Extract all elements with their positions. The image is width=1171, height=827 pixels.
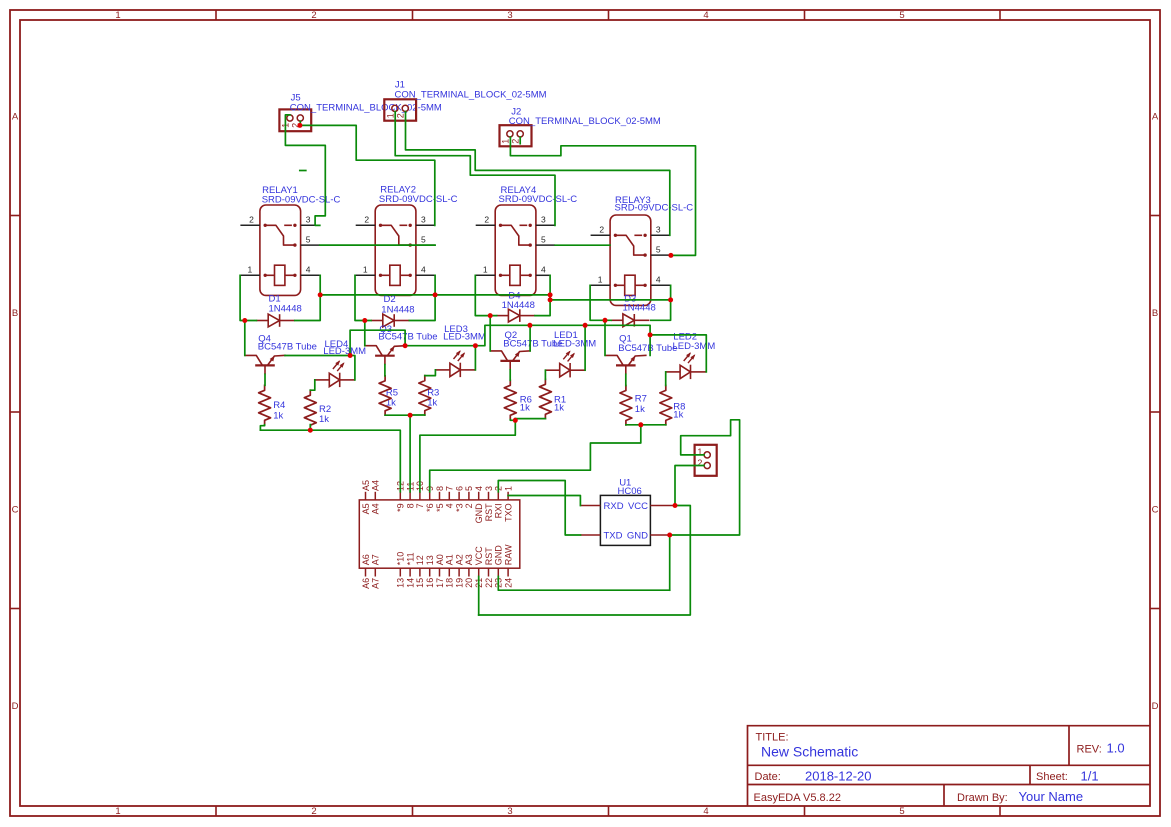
- arduino header bottom pin 16 (13): [429, 568, 431, 576]
- svg-text:2018-12-20: 2018-12-20: [805, 769, 872, 784]
- svg-text:A4: A4: [371, 503, 381, 514]
- relay RELAY2 coil: [390, 265, 400, 285]
- junction R6/R1 node: [513, 418, 518, 423]
- svg-text:2: 2: [464, 503, 474, 508]
- svg-text:B: B: [12, 308, 18, 319]
- wire RELAY3 pin4 down / D3 cathode: [651, 285, 671, 320]
- relay RELAY4 pin 2: [476, 224, 496, 226]
- connector J2 pin 1: [507, 131, 513, 137]
- junction R2 bottom: [308, 428, 313, 433]
- wire R5+R3 bottoms to arduino pin 11: [385, 414, 410, 416]
- svg-text:6: 6: [454, 486, 464, 491]
- wire D1 anode to Q4 collector: [244, 321, 246, 356]
- svg-text:CON_TERMINAL_BLOCK_02-5MM: CON_TERMINAL_BLOCK_02-5MM: [509, 116, 661, 127]
- connector J1 pin 1: [392, 105, 398, 111]
- resistor R6: [504, 380, 516, 419]
- svg-text:A5: A5: [361, 480, 371, 491]
- connector J5: [279, 109, 311, 131]
- svg-text:5: 5: [656, 245, 661, 255]
- relay RELAY1 body: [260, 205, 301, 295]
- svg-text:1: 1: [483, 265, 488, 275]
- wire VCC rail: [479, 506, 691, 616]
- svg-text:1.0: 1.0: [1107, 741, 1125, 756]
- wire R6+R1 bottoms to arduino pin 10: [510, 419, 515, 422]
- svg-text:1/1: 1/1: [1081, 769, 1099, 784]
- arduino header bottom pin 13 (*10): [399, 568, 401, 576]
- relay RELAY2 pin 4: [416, 274, 435, 276]
- svg-text:4: 4: [306, 265, 311, 275]
- junction D2 anode: [362, 318, 367, 323]
- resistor R5: [379, 376, 391, 415]
- svg-text:TXD: TXD: [604, 531, 623, 542]
- relay RELAY1 pin 2: [240, 224, 260, 226]
- resistor R2: [304, 390, 316, 429]
- svg-text:5: 5: [899, 806, 904, 817]
- svg-text:SRD-09VDC-SL-C: SRD-09VDC-SL-C: [262, 194, 341, 205]
- transistor Q3: [375, 355, 395, 357]
- svg-text:Your Name: Your Name: [1019, 789, 1084, 804]
- svg-text:2: 2: [364, 215, 369, 225]
- relay RELAY2 pin 5: [416, 244, 435, 246]
- svg-text:LED-3MM: LED-3MM: [443, 331, 486, 342]
- svg-text:2: 2: [311, 10, 316, 21]
- wire GND dot down: [669, 535, 671, 590]
- arduino header top pin 12 (*9): [399, 492, 401, 500]
- relay RELAY3 coil: [625, 275, 635, 295]
- junction RELAY4 pin4 b: [548, 297, 553, 302]
- svg-text:*9: *9: [396, 503, 406, 512]
- arduino header bottom pin 24 (RAW): [507, 568, 509, 576]
- wire arduino pin 21 to VCC rail: [478, 577, 480, 616]
- svg-text:3: 3: [541, 215, 546, 225]
- arduino header top pin 9 (*6): [429, 492, 431, 500]
- relay RELAY4 switch contacts: [501, 225, 531, 245]
- svg-text:4: 4: [703, 806, 708, 817]
- relay RELAY3 pin 3: [651, 234, 670, 236]
- connector U2 arduino header body: [359, 500, 520, 568]
- junction LED3 node: [473, 343, 478, 348]
- svg-text:12: 12: [415, 555, 425, 565]
- svg-text:A1: A1: [445, 554, 455, 565]
- svg-text:B: B: [1152, 308, 1158, 319]
- relay RELAY3 pin 2: [591, 234, 611, 236]
- wire Q3 base to R5: [384, 365, 386, 376]
- relay RELAY2 body: [375, 205, 416, 295]
- svg-text:RXI: RXI: [494, 503, 504, 518]
- svg-text:3: 3: [421, 215, 426, 225]
- arduino header top pin 5 (2): [468, 492, 470, 500]
- wire Q3 emitter node to LED3 node: [405, 345, 476, 347]
- transistor Q1: [616, 364, 636, 366]
- junction RELAY3 pin5: [668, 253, 673, 258]
- svg-text:5: 5: [306, 235, 311, 245]
- arduino header top pin A4 (A4): [374, 492, 376, 500]
- svg-text:A0: A0: [435, 554, 445, 565]
- svg-text:2: 2: [599, 225, 604, 235]
- arduino header bottom pin 23 (GND): [497, 568, 499, 576]
- wire stub (unconnected): [300, 170, 306, 172]
- LED LED3: [435, 369, 450, 371]
- svg-text:REV:: REV:: [1077, 744, 1102, 756]
- wire LED3 node to LED3 cathode: [474, 346, 476, 370]
- svg-text:A2: A2: [454, 554, 464, 565]
- svg-text:A7: A7: [371, 554, 381, 565]
- svg-text:1k: 1k: [273, 410, 283, 421]
- wire R7+R8 bottoms to arduino pin 9: [626, 424, 641, 426]
- svg-text:20: 20: [464, 578, 474, 588]
- svg-text:13: 13: [396, 578, 406, 588]
- wire Q2 emitter up to node: [529, 325, 531, 351]
- wire LED4 node to LED4 cathode: [350, 356, 355, 380]
- arduino header top pin 11 (8): [409, 492, 411, 500]
- svg-text:BC547B Tube: BC547B Tube: [258, 342, 317, 353]
- wire J1.1 to RELAY4 pin3: [395, 112, 555, 226]
- wire R4 bottom to bus: [260, 425, 264, 431]
- svg-text:16: 16: [425, 578, 435, 588]
- transistor Q4: [255, 364, 275, 366]
- svg-text:SRD-09VDC-SL-C: SRD-09VDC-SL-C: [379, 194, 458, 205]
- wire arduino pin 2 to U1 TXD: [498, 481, 580, 536]
- svg-text:8: 8: [435, 486, 445, 491]
- wire RELAY2 pin1 to D2 anode: [355, 275, 371, 320]
- svg-text:Drawn By:: Drawn By:: [957, 792, 1008, 804]
- arduino header top pin 3 (RST): [488, 492, 490, 500]
- svg-text:1: 1: [115, 806, 120, 817]
- wire RELAY4 pin5 stub: [555, 244, 610, 246]
- U1 pin TXD: [580, 534, 600, 536]
- junction J5.2: [297, 123, 302, 128]
- svg-text:1k: 1k: [520, 403, 530, 414]
- svg-text:SRD-09VDC-SL-C: SRD-09VDC-SL-C: [499, 194, 578, 205]
- junction R5/R3 node: [408, 413, 413, 418]
- svg-text:3: 3: [507, 806, 512, 817]
- connector J5 pin 2: [297, 115, 303, 121]
- svg-text:2: 2: [249, 215, 254, 225]
- junction Q2 emitter node: [527, 323, 532, 328]
- connector J3 pin 1: [704, 452, 710, 458]
- svg-text:4: 4: [541, 265, 546, 275]
- resistor R8: [660, 385, 672, 424]
- connector J3 (right, vertical): [695, 445, 717, 476]
- arduino header bottom pin 22 (RST): [488, 568, 490, 576]
- svg-text:5: 5: [541, 235, 546, 245]
- svg-text:C: C: [1152, 505, 1159, 516]
- svg-text:*10: *10: [396, 552, 406, 566]
- svg-text:VCC: VCC: [628, 501, 648, 512]
- svg-text:GND: GND: [627, 531, 648, 542]
- relay RELAY3 pin 4: [651, 284, 671, 286]
- arduino header top pin 10 (7): [419, 492, 421, 500]
- arduino header top pin 6 (*3): [458, 492, 460, 500]
- arduino header bottom pin 19 (A2): [458, 568, 460, 576]
- arduino header bottom pin 17 (A0): [439, 568, 441, 576]
- arduino header top pin 2 (RXI): [497, 492, 499, 500]
- svg-text:1k: 1k: [673, 409, 683, 420]
- svg-text:1k: 1k: [554, 403, 564, 414]
- arduino header bottom pin A7 (A7): [374, 568, 376, 576]
- svg-text:RAW: RAW: [503, 544, 513, 565]
- svg-text:3: 3: [484, 486, 494, 491]
- svg-text:C: C: [12, 505, 19, 516]
- arduino header bottom pin A6 (A6): [365, 568, 367, 576]
- svg-text:1: 1: [500, 139, 510, 144]
- relay RELAY3 body: [610, 215, 651, 305]
- arduino header bottom pin 21 (VCC): [478, 568, 480, 576]
- svg-text:1N4448: 1N4448: [381, 304, 414, 315]
- relay RELAY1 pin 1: [240, 274, 260, 276]
- svg-text:8: 8: [405, 503, 415, 508]
- svg-text:A4: A4: [371, 480, 381, 491]
- frame column ticks bottom: [215, 806, 217, 816]
- svg-text:A5: A5: [361, 503, 371, 514]
- svg-text:A7: A7: [371, 578, 381, 589]
- relay RELAY4 pin 5: [536, 244, 555, 246]
- relay RELAY2 pin 3: [416, 224, 435, 226]
- svg-text:RST: RST: [484, 503, 494, 522]
- svg-text:2: 2: [484, 215, 489, 225]
- svg-text:1N4448: 1N4448: [502, 300, 535, 311]
- svg-text:CON_TERMINAL_BLOCK_02-5MM: CON_TERMINAL_BLOCK_02-5MM: [290, 102, 442, 113]
- wire J3 pin 1 to GND: [670, 420, 740, 535]
- relay RELAY4 pin 3: [536, 224, 555, 226]
- arduino header top pin A5 (A5): [365, 492, 367, 500]
- svg-text:*11: *11: [405, 552, 415, 565]
- wire arduino pin 1 to U1 RXD: [508, 496, 580, 506]
- relay RELAY1 switch contacts: [265, 225, 295, 245]
- title block DrawnBy divider: [943, 785, 945, 806]
- wire RELAY4 pin1 to D4 anode: [475, 275, 496, 315]
- junction LED4 node: [348, 353, 353, 358]
- wire D4 anode to Q2 collector: [489, 316, 491, 351]
- wire LED3 node over to ch4 node: [475, 325, 650, 345]
- wire LED1 cathode up to node: [584, 325, 586, 370]
- arduino header top pin 1 (TXO): [507, 492, 509, 500]
- wire bus y=430 to arduino pin 12: [260, 430, 400, 492]
- svg-text:4: 4: [656, 275, 661, 285]
- arduino header top pin 7 (4): [448, 492, 450, 500]
- relay RELAY3 pin 5: [651, 254, 670, 256]
- svg-text:5: 5: [899, 10, 904, 21]
- relay RELAY2 switch contacts: [381, 225, 411, 245]
- transistor Q2: [500, 360, 520, 362]
- diode D2: [371, 320, 383, 322]
- relay RELAY4 body: [495, 205, 536, 295]
- svg-text:D: D: [1152, 701, 1159, 712]
- wire Q1 base to R7: [625, 374, 627, 385]
- svg-text:1: 1: [503, 486, 513, 491]
- resistor R1: [539, 379, 551, 418]
- svg-text:A6: A6: [361, 578, 371, 589]
- junction LED1 node: [583, 323, 588, 328]
- svg-text:1: 1: [385, 113, 395, 118]
- svg-text:1: 1: [598, 275, 603, 285]
- wire bus y=300 to RELAY3: [550, 299, 671, 301]
- frame row ticks left: [10, 215, 20, 217]
- wire RELAY1 pin1 to D1 anode: [240, 275, 256, 320]
- junction D4 anode: [488, 313, 493, 318]
- wire J2.2 stub: [519, 137, 521, 144]
- resistor R7: [620, 386, 632, 425]
- diode D3: [611, 319, 623, 321]
- arduino header bottom pin 14 (*11): [409, 568, 411, 576]
- U1 pin GND: [650, 534, 669, 536]
- title block outline: [748, 726, 1151, 806]
- connector J1 pin 2: [402, 105, 408, 111]
- svg-text:1N4448: 1N4448: [269, 304, 302, 315]
- resistor R4: [259, 385, 271, 424]
- svg-text:18: 18: [445, 578, 455, 588]
- junction Q3 emitter node: [403, 343, 408, 348]
- svg-text:TITLE:: TITLE:: [756, 732, 789, 744]
- wire coil supply bus y=295: [320, 294, 550, 296]
- arduino header bottom pin 15 (12): [419, 568, 421, 576]
- connector J3 pin 2: [704, 462, 710, 468]
- svg-text:*3: *3: [454, 503, 464, 512]
- relay RELAY1 coil: [275, 265, 285, 285]
- svg-text:4: 4: [703, 10, 708, 21]
- svg-text:1: 1: [363, 265, 368, 275]
- junction RELAY2 pin4: [433, 292, 438, 297]
- svg-text:VCC: VCC: [474, 546, 484, 566]
- svg-text:BC547B Tube: BC547B Tube: [378, 331, 437, 342]
- svg-text:LED-3MM: LED-3MM: [553, 339, 596, 350]
- wire LED4 anode to R2: [310, 380, 315, 390]
- U1 pin RXD: [580, 505, 600, 507]
- svg-text:A: A: [1152, 112, 1159, 123]
- svg-text:*6: *6: [425, 503, 435, 512]
- wire arduino pin 23 to GND rail: [498, 577, 669, 591]
- junction U1 GND: [667, 533, 672, 538]
- svg-text:RXD: RXD: [604, 501, 624, 512]
- svg-text:Date:: Date:: [755, 771, 781, 783]
- svg-text:13: 13: [425, 555, 435, 565]
- svg-text:D: D: [12, 701, 19, 712]
- diode D1: [256, 320, 268, 322]
- svg-text:EasyEDA V5.8.22: EasyEDA V5.8.22: [754, 792, 841, 804]
- relay RELAY3 pin 1: [590, 284, 610, 286]
- relay RELAY2 pin 2: [356, 224, 376, 226]
- wire D3 anode to Q1 collector: [604, 320, 606, 355]
- wire LED3 anode to R3: [425, 370, 436, 376]
- frame row ticks right: [1150, 215, 1160, 217]
- svg-text:22: 22: [484, 578, 494, 588]
- svg-text:2: 2: [511, 139, 521, 144]
- svg-text:4: 4: [445, 503, 455, 508]
- svg-text:2: 2: [311, 806, 316, 817]
- LED LED1: [545, 369, 560, 371]
- junction U1 VCC: [673, 503, 678, 508]
- wire ch4 node to Q1 emitter: [649, 335, 651, 356]
- svg-text:RST: RST: [484, 547, 494, 566]
- svg-text:1: 1: [248, 265, 253, 275]
- svg-text:1k: 1k: [635, 404, 645, 415]
- relay RELAY1 pin 3: [301, 224, 320, 226]
- svg-text:New Schematic: New Schematic: [761, 744, 858, 760]
- svg-text:4: 4: [474, 486, 484, 491]
- wire RELAY2 pin4 down / D2 cathode: [409, 275, 435, 320]
- junction RELAY1 pin4: [318, 292, 323, 297]
- wire J2.1 to RELAY3 pin5: [510, 137, 695, 255]
- wire RELAY4 pin4 down / D4 cathode: [535, 275, 550, 315]
- wire RELAY1 pin5 to RELAY2 pin5: [320, 244, 435, 246]
- wire Q4 emitter to LED4 node: [285, 355, 350, 357]
- svg-text:LED-3MM: LED-3MM: [673, 341, 716, 352]
- svg-text:1N4448: 1N4448: [623, 302, 656, 313]
- connector J1: [384, 99, 416, 120]
- arduino header bottom pin 18 (A1): [448, 568, 450, 576]
- relay RELAY1 pin 4: [301, 274, 321, 276]
- relay RELAY3 switch contacts: [615, 235, 645, 255]
- svg-text:1k: 1k: [319, 414, 329, 425]
- relay RELAY4 pin 4: [536, 274, 550, 276]
- svg-text:A6: A6: [361, 554, 371, 565]
- title block REV divider: [1068, 726, 1070, 766]
- svg-text:19: 19: [454, 578, 464, 588]
- connector J2: [500, 125, 532, 146]
- junction RELAY4 pin4 a: [548, 292, 553, 297]
- wire J5.2 to RELAY2 pin3: [300, 125, 435, 225]
- junction ch4 node: [648, 332, 653, 337]
- svg-text:15: 15: [415, 578, 425, 588]
- svg-text:GND: GND: [474, 503, 484, 524]
- arduino header top pin 4 (GND): [478, 492, 480, 500]
- title block Sheet divider: [1029, 765, 1031, 784]
- svg-text:24: 24: [503, 578, 513, 588]
- wire Q4 base to R4: [264, 374, 266, 385]
- relay RELAY1 pin 5: [301, 244, 320, 246]
- svg-text:GND: GND: [494, 545, 504, 565]
- U1 pin VCC: [650, 505, 675, 507]
- wire LED4 node up-over to Q3 emitter node: [350, 330, 405, 355]
- relay RELAY4 coil: [510, 265, 520, 285]
- connector J2 pin 2: [517, 131, 523, 137]
- svg-text:A3: A3: [464, 554, 474, 565]
- svg-text:7: 7: [415, 503, 425, 508]
- svg-text:17: 17: [435, 578, 445, 588]
- relay RELAY2 pin 1: [355, 274, 375, 276]
- connector J5 pin 1: [287, 115, 293, 121]
- svg-text:Sheet:: Sheet:: [1036, 771, 1068, 783]
- svg-text:5: 5: [421, 235, 426, 245]
- wire R2 bottom to bus: [309, 425, 311, 431]
- resistor R3: [419, 376, 431, 415]
- svg-text:BC547B Tube: BC547B Tube: [618, 343, 677, 354]
- svg-text:2: 2: [396, 113, 406, 118]
- svg-text:5: 5: [464, 486, 474, 491]
- svg-text:7: 7: [445, 486, 455, 491]
- junction R7/R8 node: [638, 422, 643, 427]
- wire VCC dot up to J3 pin 2: [675, 466, 704, 506]
- svg-text:3: 3: [656, 225, 661, 235]
- wire LED1 anode to R1: [544, 370, 546, 379]
- svg-text:3: 3: [507, 10, 512, 21]
- wire RELAY3 pin1 to D3 anode: [590, 285, 611, 320]
- svg-text:1: 1: [115, 10, 120, 21]
- svg-text:TXO: TXO: [503, 503, 513, 522]
- junction D1 anode: [242, 318, 247, 323]
- wire J5.2 stub: [299, 121, 301, 125]
- svg-text:*5: *5: [435, 503, 445, 512]
- LED LED2: [666, 371, 681, 373]
- junction D3 anode: [603, 318, 608, 323]
- wire Q2 base to R6: [509, 370, 511, 381]
- module U1 HC06 body: [600, 495, 650, 545]
- wire RELAY1 pin4 down / D1 cathode: [295, 275, 320, 320]
- arduino header top pin 8 (*5): [439, 492, 441, 500]
- junction RELAY3 pin4: [668, 297, 673, 302]
- svg-text:3: 3: [306, 215, 311, 225]
- wire J5.1 to RELAY1 pin3: [285, 115, 325, 225]
